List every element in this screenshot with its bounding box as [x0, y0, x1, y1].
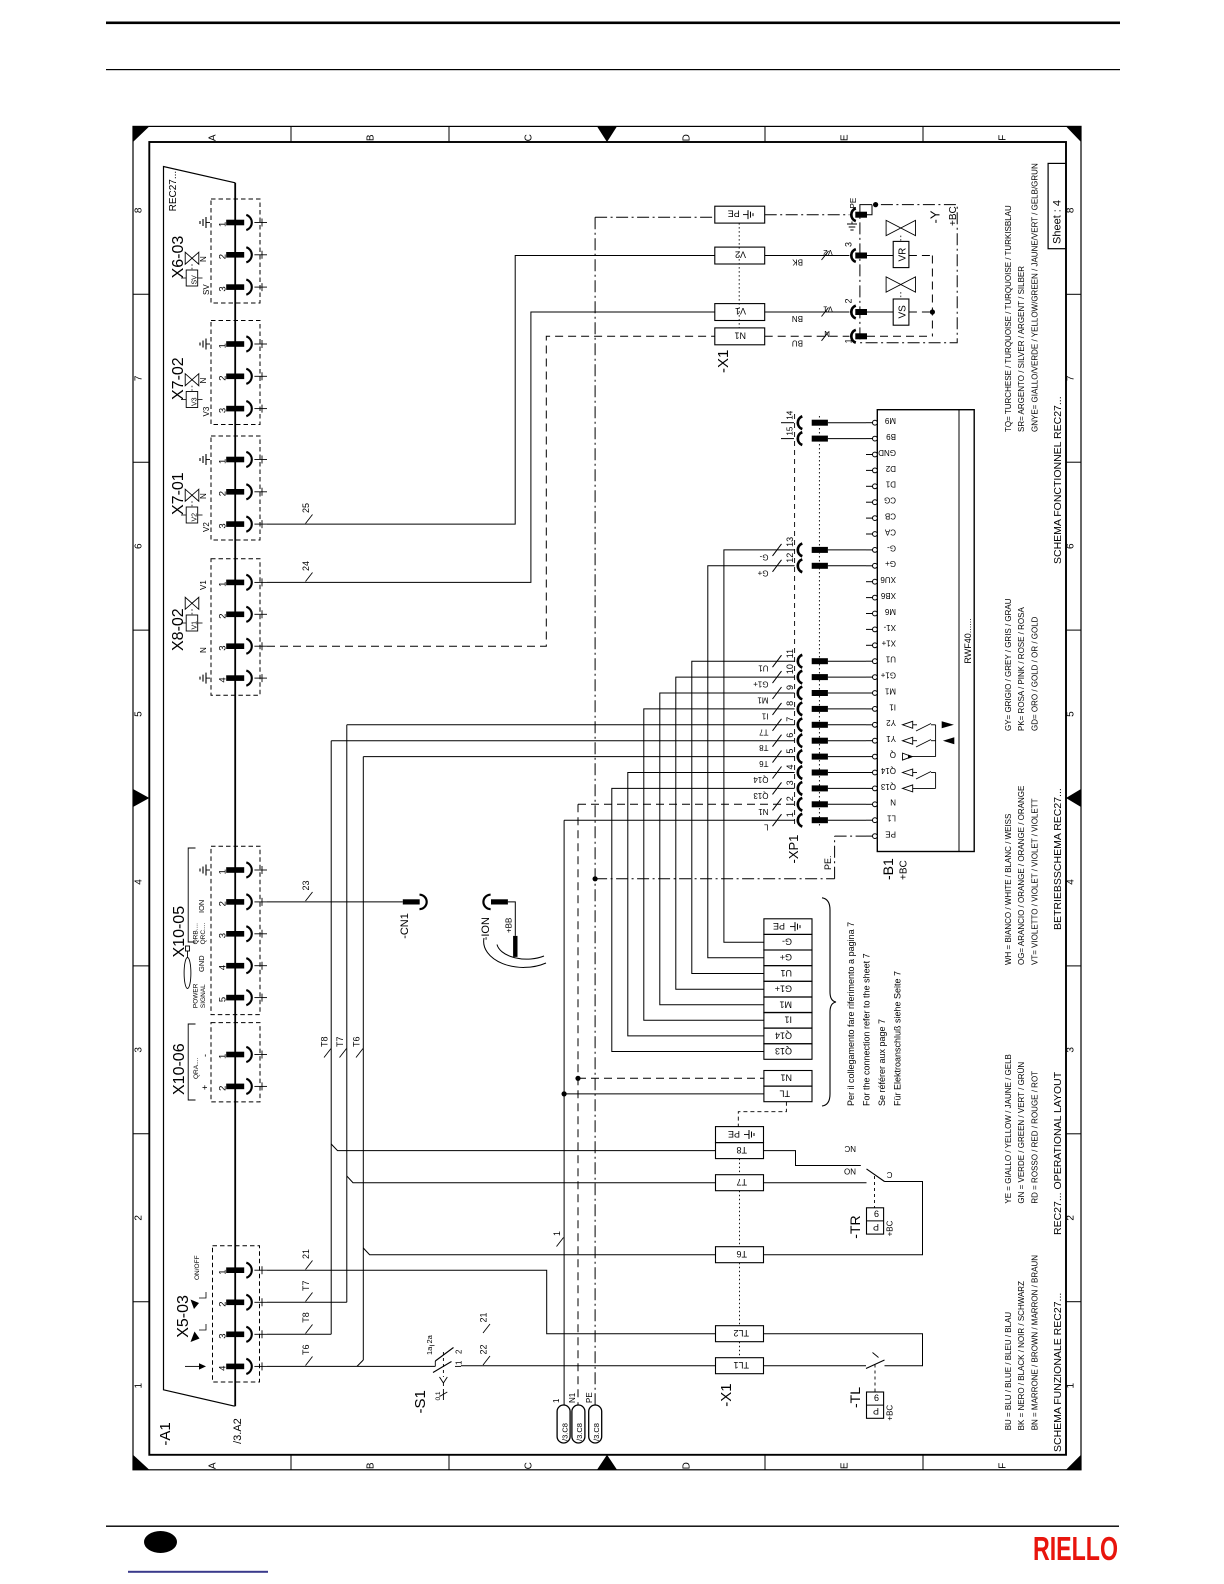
sheet7 box G+: [764, 950, 812, 966]
svg-text:G+: G+: [885, 559, 896, 568]
TR dashed actuator link: [874, 1176, 876, 1208]
B1 terminal CB: [873, 516, 878, 521]
svg-text:-S1: -S1: [412, 1390, 429, 1413]
frame row dividers right band: [1066, 293, 1081, 295]
svg-text:15: 15: [786, 426, 795, 435]
svg-text:BN = MARRONE / BROWN / MARRON: BN = MARRONE / BROWN / MARRON / BRAUN: [1030, 1255, 1039, 1431]
XP1 pin 11 socket: [798, 655, 803, 668]
page header rule thick: [106, 22, 1120, 25]
svg-text:VR: VR: [897, 248, 908, 262]
sheet7 box G1+: [764, 981, 812, 997]
X10-05 flame rod symbol: [184, 958, 191, 989]
frame inner border: [149, 142, 1066, 1455]
wire PE to -Y dash-dot: [765, 214, 850, 216]
svg-text:1: 1: [1066, 1382, 1077, 1388]
svg-text:A: A: [208, 134, 219, 141]
svg-text:5: 5: [134, 711, 145, 717]
B1 terminal XU6: [873, 579, 878, 584]
svg-text:V1: V1: [823, 305, 833, 314]
svg-text:5: 5: [785, 749, 795, 754]
svg-text:X5-03: X5-03: [175, 1295, 192, 1338]
svg-text:6: 6: [134, 543, 145, 549]
svg-text:-TL: -TL: [847, 1387, 863, 1408]
svg-text:G+: G+: [757, 568, 768, 577]
svg-text:PE: PE: [728, 209, 740, 219]
svg-text:ION: ION: [197, 900, 206, 913]
page footer rule: [106, 1526, 1119, 1527]
X7-02 pin 3: [226, 406, 244, 412]
svg-text:REC27... OPERATIONAL LAYOUT: REC27... OPERATIONAL LAYOUT: [1052, 1071, 1064, 1235]
wire 22 label: [483, 1356, 490, 1365]
svg-text:RWF40......: RWF40......: [963, 618, 973, 663]
svg-text:BETRIEBSSCHEMA REC27...: BETRIEBSSCHEMA REC27...: [1052, 788, 1064, 930]
svg-text:N1: N1: [780, 1073, 792, 1083]
svg-text:M1: M1: [884, 686, 896, 695]
X7-02 coil box V3: [186, 392, 198, 408]
svg-text:3: 3: [218, 933, 229, 938]
svg-text:2: 2: [218, 376, 229, 381]
svg-text:T6: T6: [301, 1344, 311, 1355]
svg-text:N: N: [199, 493, 208, 499]
X8-02 valve symbol V1: [185, 597, 192, 609]
wire T6/22 line from X5-03 pin4 through S1: [267, 1365, 435, 1367]
svg-text:3: 3: [218, 1334, 229, 1339]
svg-text:E: E: [840, 1462, 851, 1469]
svg-text:2: 2: [1066, 1215, 1077, 1221]
wire M1 loop: [660, 693, 795, 1005]
XP1 pin 4 socket: [798, 766, 803, 779]
TR wiring from T8: [764, 1151, 861, 1166]
wire T6 jog to T6 box: [363, 1248, 715, 1255]
svg-text:1: 1: [218, 343, 229, 348]
svg-text:P: P: [873, 1406, 879, 1416]
svg-text:T6: T6: [352, 1036, 362, 1047]
XP1 pin 2 socket: [798, 798, 803, 811]
connector CN1 bar and arc: [403, 899, 420, 904]
wire 25 V2 from X7-01 pin3: [267, 256, 715, 525]
X5-03 pin 3: [226, 1332, 244, 1338]
wire 21 label a: [306, 1261, 313, 1270]
terminal -X1 dotted link: [738, 223, 740, 328]
svg-text:8: 8: [1066, 207, 1077, 213]
svg-text:M9: M9: [884, 416, 896, 425]
wire N to -Y dashed with BU label: [765, 335, 850, 337]
svg-text:V3: V3: [192, 397, 199, 406]
wire T6 label at pin: [306, 1357, 313, 1366]
svg-text:Q13: Q13: [753, 791, 769, 800]
wire T6 jog down to pin4 line: [357, 1360, 363, 1366]
wire N1 neutral vertical dashed: [577, 804, 579, 1405]
B1 terminal XB6: [873, 595, 878, 600]
svg-text:3: 3: [218, 523, 229, 528]
-Y terminal PE: [851, 208, 856, 221]
B1 servo Y2 contact: [903, 721, 913, 728]
X7-02 pin 2: [226, 374, 244, 380]
svg-text:G-: G-: [782, 937, 792, 947]
svg-text:2: 2: [218, 1086, 229, 1091]
X7-02 pin1 ground symbol: [206, 343, 210, 345]
sheet7 box U1: [764, 966, 812, 982]
svg-text:G1+: G1+: [775, 984, 792, 994]
B1 terminal M6: [873, 611, 878, 616]
X5-03 pin 1: [226, 1267, 244, 1273]
B1 servo Q line: [903, 753, 912, 760]
svg-text:-XP1: -XP1: [786, 835, 801, 864]
svg-text:3: 3: [218, 286, 229, 291]
X10-06 bracket: [188, 1024, 195, 1100]
TL dashed actuator link: [874, 1365, 876, 1393]
connector X7-02 dashed box: [211, 321, 260, 425]
svg-text:4: 4: [218, 677, 229, 682]
svg-text:U1: U1: [885, 655, 896, 664]
vertical wire T8: [330, 741, 332, 1335]
svg-text:SCHEMA FUNZIONALE REC27...: SCHEMA FUNZIONALE REC27...: [1052, 1293, 1064, 1452]
svg-text:V1: V1: [192, 621, 199, 630]
svg-text:B9: B9: [886, 432, 896, 441]
TR contact blade: [867, 1169, 885, 1182]
svg-text:2: 2: [218, 1302, 229, 1307]
wire Q13 loop: [612, 788, 795, 1051]
TR wiring T7 to common: [764, 1182, 867, 1184]
svg-text:P: P: [873, 1222, 879, 1232]
svg-text:1: 1: [785, 812, 795, 817]
svg-text:ON/OFF: ON/OFF: [194, 1255, 201, 1280]
svg-text:RIELLO: RIELLO: [1033, 1530, 1118, 1567]
wire I1 loop: [644, 709, 795, 1020]
X10-05 pin 3: [226, 931, 244, 937]
X8-02 pin4 ground symbol: [206, 677, 210, 679]
sheet number box: [1048, 163, 1066, 248]
svg-text:2: 2: [218, 614, 229, 619]
wire T8 jog to T8 box: [331, 1144, 715, 1151]
page header rule thin: [106, 69, 1120, 70]
XP1 pin 10 socket: [798, 671, 803, 684]
svg-text:4: 4: [218, 965, 229, 970]
-Y terminal 2 V1: [851, 306, 856, 319]
svg-text:1: 1: [218, 869, 229, 874]
svg-text:4: 4: [785, 764, 795, 769]
svg-text:N: N: [824, 329, 830, 338]
svg-text:N: N: [890, 798, 896, 807]
svg-text:Se référer aux page 7: Se référer aux page 7: [877, 1019, 887, 1106]
-Y PE link to boundary: [867, 205, 872, 215]
sheet7 box Q13: [764, 1044, 812, 1060]
svg-text:REC27...: REC27...: [168, 171, 179, 212]
X7-01 pin 1: [226, 457, 244, 463]
svg-text:5: 5: [218, 997, 229, 1002]
frame row dividers left band: [133, 293, 149, 295]
X6-03 pin 1: [226, 220, 244, 226]
svg-text:1: 1: [218, 1269, 229, 1274]
-B1 inner divider: [958, 410, 960, 852]
valve VS box: [893, 299, 909, 325]
svg-text:9: 9: [785, 685, 795, 690]
svg-text:F: F: [998, 1463, 1009, 1469]
X7-02 valve symbol V3: [185, 374, 192, 386]
A1 pin bus line: [234, 183, 236, 1406]
connector X8-02 dashed box: [211, 559, 260, 695]
svg-text:2: 2: [218, 254, 229, 259]
svg-text:-ION: -ION: [480, 917, 492, 940]
svg-text:10: 10: [785, 664, 795, 674]
terminal box TL1: [716, 1358, 764, 1374]
X6-03 valve symbol SV: [185, 252, 192, 264]
svg-text:V2: V2: [823, 248, 833, 257]
svg-text:14: 14: [786, 410, 795, 419]
svg-text:T8: T8: [320, 1036, 330, 1047]
XP1 pin 3 socket: [798, 782, 803, 795]
X10-05 pin 5: [226, 995, 244, 1001]
svg-text:GN = VERDE / GREEN / VERT / GR: GN = VERDE / GREEN / VERT / GRÜN: [1017, 1062, 1026, 1204]
svg-text:-X1: -X1: [715, 350, 732, 373]
X5-03 arrow symbol: [185, 1365, 199, 1367]
footer blue line: [128, 1571, 268, 1573]
svg-text:BK = NERO / BLACK / NOIR / SCH: BK = NERO / BLACK / NOIR / SCHWARZ: [1017, 1281, 1026, 1430]
svg-text:GY= GRIGIO / GREY / GRIS / GRA: GY= GRIGIO / GREY / GRIS / GRAU: [1004, 598, 1013, 731]
X10-06 pin 2: [226, 1084, 244, 1090]
B1 terminal Q13: [873, 786, 878, 791]
svg-text:V3: V3: [202, 406, 211, 416]
svg-text:G-: G-: [887, 543, 896, 552]
wire 24 label: [306, 573, 313, 582]
B1 terminal Y2: [873, 722, 878, 727]
svg-text:Für Elektroanschluß siehe Seit: Für Elektroanschluß siehe Seite 7: [893, 971, 903, 1106]
svg-text:23: 23: [301, 880, 311, 890]
svg-text:V2: V2: [735, 250, 746, 260]
svg-text:NO: NO: [844, 1167, 856, 1176]
B1 servo Y1 contact: [903, 737, 913, 744]
svg-text:7: 7: [785, 717, 795, 722]
B1 terminal CG: [873, 500, 878, 505]
svg-text:9: 9: [874, 1393, 879, 1403]
XP1 dotted bar spine: [818, 416, 820, 826]
svg-text:X1+: X1+: [881, 639, 896, 648]
B1 terminal U1: [873, 659, 878, 664]
svg-text:YE = GIALLO / YELLOW / JAUNE /: YE = GIALLO / YELLOW / JAUNE / GELB: [1004, 1054, 1013, 1203]
svg-text:2: 2: [455, 1349, 464, 1354]
svg-text:T7: T7: [736, 1177, 747, 1187]
wire V2 to -Y with BK label: [765, 255, 850, 257]
svg-text:-X1: -X1: [718, 1383, 735, 1406]
wire G+ loop: [708, 566, 795, 958]
connector X5-03 dashed box: [213, 1246, 260, 1382]
sheet7 box G-: [764, 934, 812, 950]
terminal box T8: [716, 1143, 764, 1159]
XP1 pin 12 socket: [798, 559, 803, 572]
wire T8 label mid: [324, 1049, 331, 1058]
controller -B1 box: [877, 410, 974, 852]
svg-text:X1-: X1-: [883, 623, 896, 632]
svg-text:Q13: Q13: [880, 782, 896, 791]
svg-text:QRA....: QRA....: [193, 1057, 200, 1079]
wire Q14 loop: [628, 773, 795, 1036]
valve VR box: [893, 241, 909, 267]
svg-text:I1: I1: [761, 711, 768, 720]
svg-text:POWER: POWER: [193, 983, 200, 1008]
svg-text:1: 1: [455, 1360, 464, 1365]
TL thermostat box: [867, 1392, 884, 1418]
footer bullet ellipse: [144, 1531, 177, 1553]
svg-text:3: 3: [134, 1047, 145, 1053]
svg-text:Q: Q: [890, 750, 896, 759]
svg-text:L1: L1: [887, 814, 896, 823]
svg-text:-TR: -TR: [847, 1215, 863, 1238]
wire T8 from X5-03 pin3: [267, 1333, 331, 1335]
wire T7 jog to T7 box: [347, 1176, 716, 1183]
terminal box N1: [715, 328, 765, 345]
B1 terminal D1: [873, 484, 878, 489]
wire 24 V1 from X8-02 pin1: [267, 312, 715, 582]
B1 terminal X1-: [873, 627, 878, 632]
svg-text:PE: PE: [585, 1392, 594, 1403]
X6-03 pin 3: [226, 284, 244, 290]
B1 terminal N: [873, 802, 878, 807]
svg-text:GNYE= GIALLO/VERDE / YELLOW/GR: GNYE= GIALLO/VERDE / YELLOW/GREEN / JAUN…: [1030, 163, 1039, 432]
svg-text:+BC: +BC: [886, 1405, 895, 1421]
svg-text:X10-06: X10-06: [171, 1043, 188, 1095]
B1 servo bracket Y: [935, 725, 937, 757]
svg-text:+BC: +BC: [886, 1220, 895, 1236]
B1 servo arrows: [942, 721, 954, 728]
svg-text:1: 1: [218, 459, 229, 464]
svg-text:N1: N1: [568, 1392, 577, 1403]
XP1 pin 13 socket: [798, 544, 803, 557]
wire PE dash-dot vertical: [594, 217, 596, 1405]
svg-text:M1: M1: [779, 999, 792, 1009]
svg-text:D: D: [682, 1462, 693, 1469]
sheet7 box M1: [764, 997, 812, 1013]
svg-text:G1+: G1+: [753, 680, 769, 689]
X5-03 switch symbol up: [199, 1324, 206, 1330]
svg-text:CG: CG: [884, 496, 896, 505]
connector X7-01 dashed box: [211, 436, 260, 540]
X6-03 coil box SV: [186, 270, 198, 286]
svg-text:Sheet : 4: Sheet : 4: [1052, 200, 1064, 244]
X8-02 coil box V1: [186, 615, 198, 631]
svg-text:VT= VIOLETTO / VIOLET / VIOLET: VT= VIOLETTO / VIOLET / VIOLET / VIOLETT: [1030, 798, 1039, 965]
svg-text:Per il collegamento fare rifer: Per il collegamento fare riferimento a p…: [846, 922, 856, 1106]
B1 terminal D2: [873, 468, 878, 473]
X6-03 pin 2: [226, 252, 244, 258]
wire G1+ loop: [676, 677, 795, 989]
svg-text:Q13: Q13: [775, 1046, 792, 1056]
terminal box TL2: [716, 1326, 764, 1342]
svg-text:Q14: Q14: [880, 766, 896, 775]
svg-text:7: 7: [1066, 375, 1077, 381]
wire 25 label: [306, 515, 313, 524]
-Y terminal 1 N: [851, 330, 856, 343]
svg-text:Q14: Q14: [775, 1030, 792, 1040]
svg-text:2: 2: [134, 1215, 145, 1221]
terminal box T7: [716, 1175, 764, 1191]
main switch S1: [434, 1361, 436, 1366]
B1 terminal Y1: [873, 738, 878, 743]
lower -X1 dotted link: [739, 1159, 741, 1175]
control box A1 outline: [164, 167, 236, 1407]
svg-text:N: N: [199, 378, 208, 384]
svg-text:/3.A2: /3.A2: [232, 1418, 244, 1444]
VR wiring: [867, 255, 893, 257]
X10-05 pin1 ground symbol: [206, 869, 210, 871]
terminal box V1: [715, 304, 765, 321]
svg-text:G-: G-: [759, 552, 768, 561]
svg-text:3: 3: [218, 408, 229, 413]
svg-text:I1: I1: [889, 702, 896, 711]
valve VS bowtie: [886, 277, 901, 292]
wire T6 label mid: [356, 1049, 363, 1058]
svg-text:M1: M1: [757, 696, 769, 705]
svg-text:B: B: [366, 1462, 377, 1469]
svg-text:T7: T7: [335, 1036, 345, 1047]
sheet ref oval N1: [572, 1405, 585, 1443]
sheet7 box PE: [764, 919, 812, 935]
svg-text:G1+: G1+: [880, 671, 896, 680]
svg-text:1a: 1a: [425, 1346, 434, 1355]
svg-text:6: 6: [785, 733, 795, 738]
X8-02 pin 4: [226, 675, 244, 681]
ION probe wire: [508, 902, 515, 936]
wire L1 junction to TL: [562, 1091, 567, 1096]
B1 terminal G-: [873, 548, 878, 553]
svg-text:-CN1: -CN1: [399, 913, 411, 939]
B1 terminal B9: [873, 436, 878, 441]
svg-text:For the connection refer to th: For the connection refer to the sheet 7: [862, 953, 872, 1106]
X7-01 pin1 ground symbol: [206, 459, 210, 461]
svg-text:N1: N1: [734, 330, 746, 340]
svg-text:B: B: [366, 134, 377, 141]
svg-text:13: 13: [785, 537, 795, 547]
svg-text:-A1: -A1: [157, 1422, 174, 1445]
wire 1 label: [557, 1238, 564, 1247]
svg-text:2: 2: [844, 298, 854, 303]
XP1 pin 6 socket: [798, 734, 803, 747]
vertical wire T6: [362, 757, 364, 1360]
svg-text:T6: T6: [736, 1249, 747, 1259]
X10-05 pin 2: [226, 899, 244, 905]
B1 terminal M1: [873, 691, 878, 696]
svg-text:SV: SV: [192, 275, 199, 285]
svg-text:1: 1: [552, 1231, 562, 1236]
svg-text:+: +: [200, 1085, 210, 1090]
svg-text:1: 1: [218, 1054, 229, 1059]
XP1 pin 8 socket: [798, 703, 803, 716]
wire T7 label at pin: [306, 1293, 313, 1302]
sheet ref oval PE: [589, 1405, 602, 1443]
svg-text:F: F: [998, 135, 1009, 141]
X6-03 pin1 ground symbol: [206, 222, 210, 224]
svg-text:T6: T6: [759, 759, 769, 768]
B1 servo Q14 contact: [903, 769, 913, 776]
wire PE junction: [593, 876, 598, 881]
svg-text:E: E: [840, 134, 851, 141]
XP1 wire name labels: [773, 544, 782, 556]
svg-text:NC: NC: [844, 1144, 856, 1153]
svg-text:QRC....: QRC....: [200, 923, 207, 945]
svg-text:12: 12: [785, 553, 795, 563]
wire U1 loop: [692, 661, 795, 973]
svg-text:V2: V2: [192, 513, 199, 522]
TR common wire to T6: [764, 1182, 923, 1255]
svg-text:2a: 2a: [425, 1334, 434, 1343]
svg-text:1: 1: [218, 582, 229, 587]
TR thermostat box: [867, 1208, 884, 1234]
svg-text:8: 8: [134, 207, 145, 213]
connector X10-06 dashed box: [211, 1023, 260, 1102]
XP1 dashed spine: [794, 414, 796, 828]
X8-02 pin 2: [226, 612, 244, 618]
X8-02 pin 3: [226, 643, 244, 649]
X7-01 pin 3: [226, 521, 244, 527]
